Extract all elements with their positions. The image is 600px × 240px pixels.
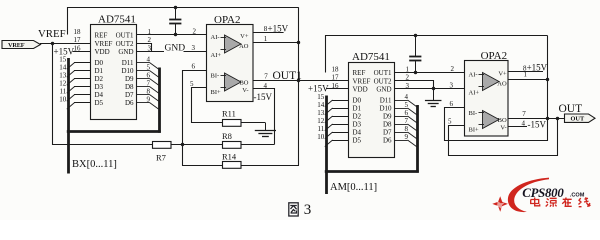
bus AM thick bottom horizontal	[325, 170, 419, 173]
wire: vertical OUT1 rail	[298, 7, 300, 165]
svg-text:2: 2	[193, 28, 197, 36]
svg-text:OUT2: OUT2	[374, 77, 392, 85]
svg-text:D3: D3	[353, 121, 362, 129]
svg-text:+15V: +15V	[268, 23, 289, 33]
capacitor C2	[409, 36, 421, 73]
wire: +15V to U3 pin16	[326, 88, 349, 90]
bus BX thick left vertical	[67, 58, 70, 174]
svg-text:11: 11	[318, 125, 325, 133]
node: C1 bottom junction	[174, 33, 177, 36]
node: BI+ tie junction	[556, 117, 559, 120]
svg-text:D2: D2	[95, 75, 104, 83]
logo star	[492, 196, 508, 211]
svg-text:1: 1	[406, 65, 410, 73]
U1 data wires left with bus slashes	[67, 63, 91, 110]
svg-text:BI+: BI+	[211, 89, 222, 96]
svg-text:D9: D9	[125, 75, 134, 83]
U2 amplifier A triangle	[221, 35, 242, 53]
svg-text:D11: D11	[122, 59, 134, 67]
node: R8 junction	[181, 143, 184, 146]
svg-text:9: 9	[405, 133, 409, 141]
svg-text:AI-: AI-	[469, 72, 478, 79]
svg-text:VDD: VDD	[95, 48, 110, 56]
ground G1	[255, 123, 276, 137]
svg-text:OUT1: OUT1	[273, 70, 303, 82]
U3 pin numbers right	[405, 65, 410, 141]
svg-text:V-: V-	[242, 87, 248, 94]
wire: U3 REF pin18 feedback to top rail 2	[326, 36, 548, 73]
wire: VREF down to R7	[53, 44, 153, 145]
svg-text:D7: D7	[125, 91, 134, 99]
svg-text:12: 12	[59, 79, 67, 87]
wire: U2 V- pin4 jog down to R8	[253, 89, 275, 145]
svg-text:D0: D0	[95, 59, 104, 67]
wire: U4 BI+ pin5 loop	[449, 119, 558, 156]
wire: U4 V+ pin8 stub	[508, 71, 543, 73]
svg-text:+15V: +15V	[527, 63, 548, 73]
svg-text:D10: D10	[121, 67, 134, 75]
svg-text:15: 15	[59, 55, 67, 63]
svg-text:2: 2	[451, 65, 455, 73]
svg-text:10: 10	[59, 95, 67, 103]
svg-text:D8: D8	[125, 83, 134, 91]
svg-text:BO: BO	[498, 117, 507, 124]
bus AM thick right vertical	[416, 105, 419, 173]
U2 pin numbers	[190, 25, 268, 90]
U4 pin numbers	[448, 64, 528, 127]
svg-text:D5: D5	[95, 99, 104, 107]
svg-text:12: 12	[317, 117, 325, 125]
svg-text:VREF: VREF	[95, 40, 113, 48]
wire: U3 GND pin3 to U4 AI+ pin3	[395, 88, 465, 90]
DAC U1 AD7541 body	[91, 14, 137, 120]
svg-text:D5: D5	[353, 137, 362, 145]
svg-text:5: 5	[448, 118, 452, 126]
wire: U4 V- pin4 stub	[508, 126, 527, 128]
svg-text:13: 13	[59, 71, 67, 79]
svg-text:GND: GND	[118, 48, 133, 56]
U4 amplifier A triangle	[479, 73, 500, 91]
port tag OUT	[565, 114, 596, 123]
svg-text:6: 6	[450, 100, 454, 108]
wire: +15V to U1 pin16	[73, 51, 92, 53]
svg-text:V+: V+	[240, 33, 249, 40]
bus BX thick bottom horizontal	[67, 130, 161, 133]
svg-text:7: 7	[264, 73, 268, 81]
wire: U1 OUT2 pin2 jog down to GND net	[137, 44, 152, 52]
svg-text:OUT1: OUT1	[374, 69, 392, 77]
svg-text:13: 13	[317, 109, 325, 117]
svg-text:OUT2: OUT2	[116, 40, 134, 48]
svg-text:D2: D2	[353, 113, 362, 121]
wire: U4 BI- pin6 feedback loop	[445, 108, 548, 141]
svg-text:D10: D10	[379, 105, 392, 113]
svg-text:11: 11	[60, 87, 67, 95]
svg-text:AI+: AI+	[211, 52, 222, 59]
svg-text:5: 5	[405, 101, 409, 109]
svg-text:D11: D11	[380, 97, 392, 105]
svg-text:OUT1: OUT1	[116, 32, 134, 40]
svg-text:OPA2: OPA2	[214, 14, 241, 26]
svg-text:2: 2	[148, 36, 152, 44]
op-amp U4 OPA2 body	[465, 50, 509, 136]
node: AO2 junction	[546, 78, 549, 81]
svg-text:3: 3	[450, 82, 454, 90]
wire: U3 OUT2 pin2 jog down to GND net	[395, 81, 434, 89]
wire: VREF tag to U1 pin17	[40, 43, 91, 45]
svg-text:4: 4	[405, 93, 409, 101]
U2 amplifier B triangle	[221, 73, 242, 91]
svg-text:14: 14	[317, 101, 325, 109]
node: OUT1 junction	[297, 79, 300, 82]
svg-text:OUT: OUT	[571, 116, 585, 123]
svg-text:AI-: AI-	[211, 34, 220, 41]
node: C1 top junction	[174, 6, 177, 9]
svg-text:VREF: VREF	[8, 42, 25, 49]
svg-text:BI+: BI+	[469, 127, 480, 134]
wire: vertical OUT rail 2	[547, 36, 549, 142]
ground G2	[425, 89, 442, 107]
svg-text:D6: D6	[383, 137, 392, 145]
wire: U1 OUT1 pin1 to U2 AI- pin2	[137, 34, 207, 36]
resistor R8	[222, 131, 241, 149]
svg-text:AI+: AI+	[469, 90, 480, 97]
svg-text:7: 7	[405, 117, 409, 125]
node: C2 bottom junction	[414, 71, 417, 74]
U4 amplifier B triangle	[479, 111, 500, 129]
svg-text:D7: D7	[383, 129, 392, 137]
svg-text:15: 15	[317, 93, 325, 101]
svg-text:16: 16	[74, 44, 82, 52]
svg-text:3: 3	[192, 44, 196, 52]
svg-text:AD7541: AD7541	[98, 14, 136, 26]
wire: U2 BI- pin6 down to R8/R14 node	[183, 71, 207, 166]
svg-text:D6: D6	[125, 99, 134, 107]
DAC U3 AD7541 body	[349, 51, 395, 158]
svg-text:D8: D8	[383, 121, 392, 129]
svg-text:VREF: VREF	[38, 28, 66, 40]
svg-text:REF: REF	[353, 69, 366, 77]
svg-text:D4: D4	[353, 129, 362, 137]
svg-text:16: 16	[332, 82, 340, 90]
svg-text:D1: D1	[353, 105, 362, 113]
svg-text:GND: GND	[376, 86, 391, 94]
wire: GND label to U2 AI+ pin3	[184, 51, 207, 53]
svg-text:BX[0...11]: BX[0...11]	[72, 159, 117, 170]
svg-text:18: 18	[74, 28, 82, 36]
svg-text:6: 6	[405, 109, 409, 117]
wire: R14 left from node	[182, 165, 222, 167]
svg-text:D3: D3	[95, 83, 104, 91]
svg-text:18: 18	[332, 65, 340, 73]
svg-text:BI-: BI-	[469, 110, 478, 117]
svg-text:7: 7	[522, 110, 526, 118]
svg-text:14: 14	[59, 63, 67, 71]
svg-text:AD7541: AD7541	[352, 51, 390, 63]
svg-text:D1: D1	[95, 67, 104, 75]
wire: U1 GND pin3 to GND label	[137, 51, 164, 53]
svg-text:BI-: BI-	[211, 73, 220, 80]
node: OUT junction	[546, 117, 549, 120]
node: VREF junction	[51, 42, 54, 45]
port tag VREF	[2, 41, 41, 50]
node: GND2 junction	[432, 87, 435, 90]
logo swoosh	[508, 178, 549, 212]
svg-text:8: 8	[405, 125, 409, 133]
U1 data wires right with bus slashes	[137, 63, 159, 110]
U1 pin numbers right	[147, 28, 152, 104]
svg-text:17: 17	[74, 36, 82, 44]
svg-text:BO: BO	[239, 80, 248, 87]
svg-text:OUT: OUT	[559, 103, 583, 115]
svg-text:-15V: -15V	[528, 119, 547, 129]
svg-text:3: 3	[304, 202, 312, 218]
svg-text:OPA2: OPA2	[481, 50, 508, 62]
svg-text:D0: D0	[353, 97, 362, 105]
wire: R7 to R8	[171, 144, 223, 146]
U3 pin numbers left	[317, 65, 339, 141]
svg-text:GND: GND	[165, 43, 186, 53]
resistor R11	[222, 109, 241, 127]
svg-text:17: 17	[332, 74, 340, 82]
resistor R14	[222, 151, 241, 168]
svg-text:V+: V+	[498, 70, 507, 77]
U1 pin numbers left	[59, 28, 81, 104]
op-amp U2 OPA2 body	[207, 14, 254, 102]
wire: R11 to ground	[241, 122, 266, 124]
svg-text:V-: V-	[500, 124, 506, 131]
svg-text:VDD: VDD	[353, 86, 368, 94]
svg-text:.COM: .COM	[570, 193, 585, 199]
node: AO junction	[297, 41, 300, 44]
logo text dian-yuan-zai-xian (drawn)	[531, 197, 591, 207]
svg-text:R8: R8	[222, 131, 232, 141]
wire: U2 AO pin1 to feedback rail	[253, 42, 299, 44]
svg-text:AM[0...11]: AM[0...11]	[330, 182, 377, 193]
wire: R14 right to OUT1 rail	[241, 165, 300, 167]
wire: R8 right to V- jog	[241, 144, 275, 146]
svg-text:R7: R7	[156, 153, 166, 163]
caption: figure character TU (drawn)	[289, 203, 298, 216]
svg-text:R14: R14	[222, 151, 237, 161]
capacitor C1	[169, 7, 181, 35]
wire: U4 AO pin1 to feedback rail 2	[508, 79, 548, 81]
wire: U2 V+ pin8 stub	[253, 32, 284, 34]
svg-text:CPS800: CPS800	[522, 186, 564, 200]
bus AM thick left vertical	[325, 96, 328, 195]
svg-text:-15V: -15V	[254, 92, 273, 102]
wire: U2 BI+ pin5 down to R11	[192, 88, 223, 123]
svg-text:REF: REF	[95, 32, 108, 40]
svg-text:D9: D9	[383, 113, 392, 121]
wire: U4 BO pin7 to OUT tag	[508, 118, 565, 120]
bus BX thick right vertical	[158, 68, 161, 133]
svg-text:10: 10	[317, 133, 325, 141]
svg-text:VREF: VREF	[353, 77, 371, 85]
wire: U3 OUT1 pin1 to U4 AI- pin2	[395, 72, 465, 74]
svg-text:R11: R11	[222, 109, 236, 119]
resistor R7	[153, 142, 172, 163]
U3 data wires right with bus slashes	[395, 100, 417, 147]
wire: U2 BO pin7 output to U3 VREF	[253, 80, 349, 82]
wire: U1 REF pin18 feedback to top rail	[68, 8, 299, 35]
U3 data wires left with bus slashes	[325, 100, 349, 147]
node: C2 top junction	[414, 34, 417, 37]
svg-text:6: 6	[192, 63, 196, 71]
svg-text:D4: D4	[95, 91, 104, 99]
svg-text:1: 1	[148, 28, 152, 36]
